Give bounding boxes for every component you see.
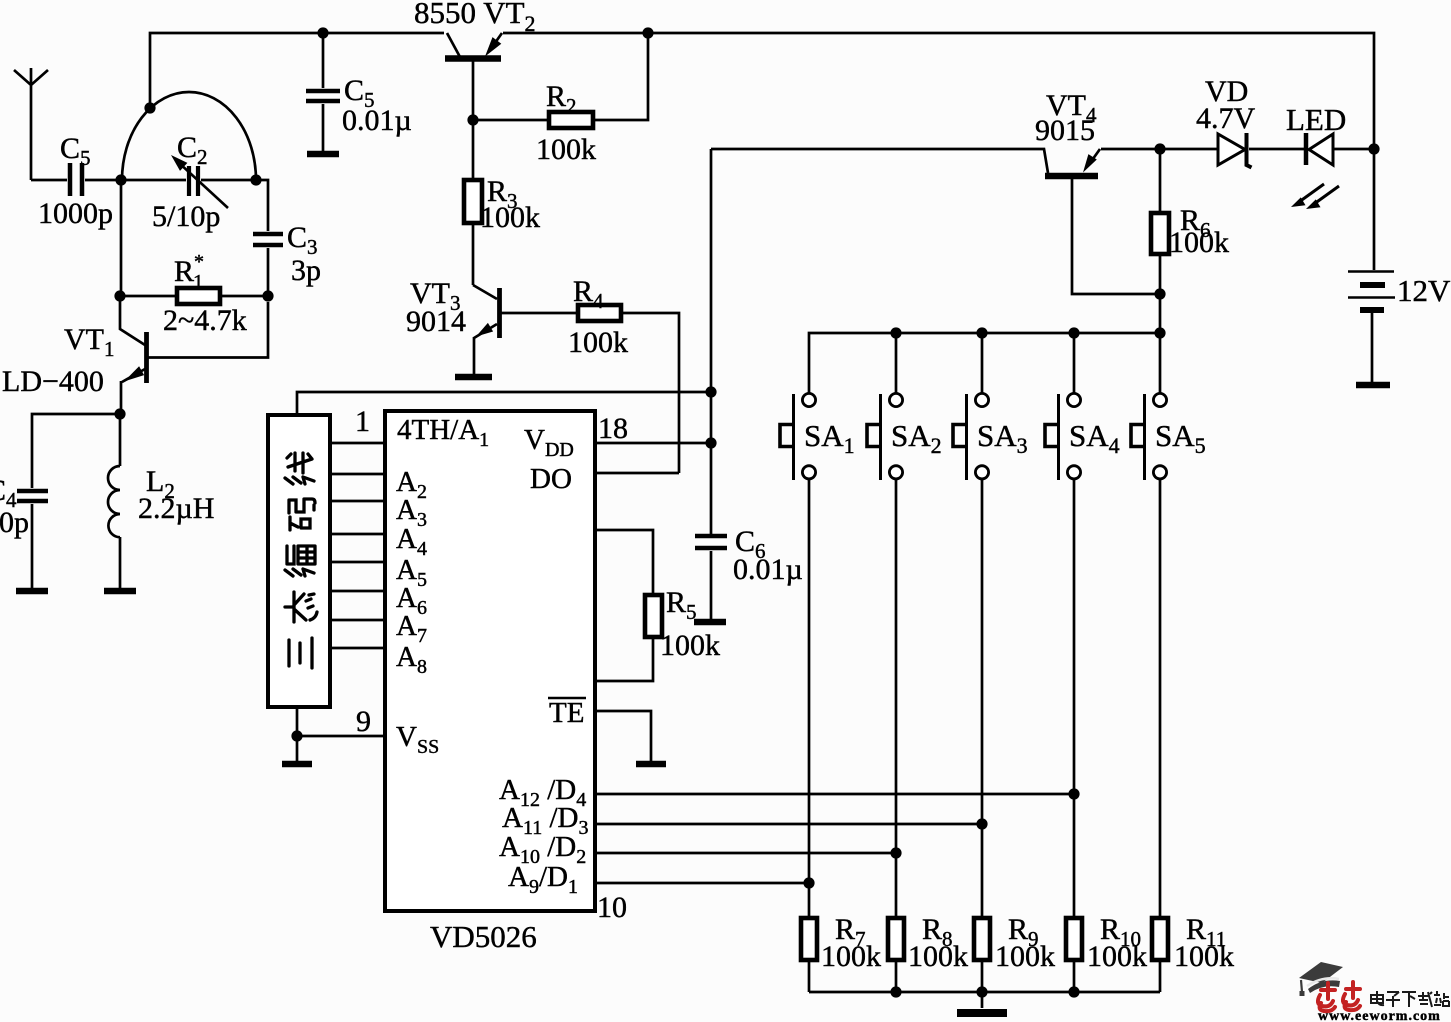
pin 1 wire <box>330 442 385 445</box>
svg-text:VD5026: VD5026 <box>430 919 537 954</box>
node bus SA5 <box>1154 327 1165 338</box>
watermark text dianzi xiazaizhan <box>1371 991 1449 1007</box>
pin A4 wire <box>330 533 385 536</box>
resistor R6 100k <box>1151 149 1229 294</box>
node rail R10 <box>1068 986 1079 997</box>
wire DO pin <box>595 472 679 475</box>
capacitor C3 3p <box>253 221 321 296</box>
node SA3 D3 <box>976 818 987 829</box>
resistor R8 100k <box>888 913 968 992</box>
capacitor C6 0.01u <box>695 525 803 619</box>
wire Vss pin <box>297 735 385 738</box>
wire SA3 down <box>981 479 984 918</box>
capacitor C5 0.01u <box>306 33 412 151</box>
wire emitter to C4 <box>32 414 120 488</box>
node C5b top <box>317 27 328 38</box>
wire rail right segment <box>503 33 1374 270</box>
svg-text:A9/D1: A9/D1 <box>508 861 578 898</box>
pin A2 wire <box>330 473 385 476</box>
svg-text:100k: 100k <box>995 940 1055 973</box>
wire VD to LED <box>1249 148 1305 151</box>
wire SA1 down <box>808 479 811 918</box>
pin A3 wire <box>330 500 385 503</box>
node rail R2 <box>642 27 653 38</box>
resistor R10 100k <box>1066 913 1147 992</box>
pin A7 wire <box>330 619 385 622</box>
wire A12/D4 <box>595 793 1074 796</box>
transistor VT1 LD-400 <box>2 296 268 414</box>
capacitor C5 1000p <box>38 132 113 230</box>
IC U1 VD5026 box <box>385 411 595 911</box>
node rail R8 <box>890 986 901 997</box>
node SA4 D4 <box>1068 788 1079 799</box>
wire antenna to C5 <box>31 179 67 182</box>
wire button bus <box>809 294 1160 394</box>
capacitor C2 5/10p variable <box>122 131 256 233</box>
resistor R7 100k <box>801 913 881 992</box>
node R6 top <box>1154 143 1165 154</box>
svg-text:C5: C5 <box>60 132 91 170</box>
pin A5 wire <box>330 561 385 564</box>
svg-text:2.2µH: 2.2µH <box>138 492 214 525</box>
LED emission arrows <box>1291 184 1339 209</box>
svg-text:C2: C2 <box>177 131 208 169</box>
svg-text:1000p: 1000p <box>38 197 113 230</box>
wire VDD pin 18 <box>595 442 711 445</box>
wire SA4 down <box>1073 479 1076 918</box>
svg-text:9: 9 <box>356 705 371 738</box>
svg-text:SA1: SA1 <box>804 418 855 458</box>
node arc tap <box>144 102 155 113</box>
svg-text:SA3: SA3 <box>977 418 1028 458</box>
wire A9/D1 <box>595 882 809 885</box>
node bus SA2 <box>890 327 901 338</box>
svg-text:100k: 100k <box>660 629 720 662</box>
transistor VT3 9014 <box>406 277 578 374</box>
resistor R4 100k <box>568 275 679 473</box>
node SA2 D2 <box>890 847 901 858</box>
wire encoder bottom to Vss <box>296 707 299 736</box>
node rail R9 <box>976 986 987 997</box>
svg-text:www.eeworm.com: www.eeworm.com <box>1318 1009 1441 1022</box>
ground TE <box>636 761 666 768</box>
switch SA3 <box>953 393 1028 480</box>
svg-text:TE: TE <box>549 697 584 729</box>
wire encoder top to VDD <box>297 392 711 415</box>
svg-text:4.7V: 4.7V <box>1196 102 1256 135</box>
antenna <box>14 68 48 180</box>
zener VD 4.7V <box>1196 75 1256 168</box>
node Vss <box>291 730 302 741</box>
svg-text:100k: 100k <box>536 133 596 166</box>
svg-text:100k: 100k <box>1087 940 1147 973</box>
node R1 left <box>114 290 125 301</box>
node A <box>115 174 126 185</box>
ground bottom rail <box>957 992 1007 1013</box>
ground battery <box>1356 382 1390 389</box>
LED <box>1286 102 1374 165</box>
svg-text:LED: LED <box>1286 102 1346 137</box>
svg-text:12V: 12V <box>1397 273 1451 308</box>
ground VT3 <box>455 374 492 381</box>
wire node A down <box>120 180 123 296</box>
watermark chongchong red <box>1318 982 1360 1011</box>
svg-text:R4: R4 <box>573 275 604 313</box>
transistor VT2 8550 <box>414 0 536 120</box>
node VT1 emitter <box>114 408 125 419</box>
node VT4 base / R6 bottom <box>1154 288 1165 299</box>
svg-text:5/10p: 5/10p <box>152 200 220 233</box>
svg-text:18: 18 <box>598 412 628 445</box>
battery 12V <box>1348 272 1451 383</box>
node bus SA3 <box>976 327 987 338</box>
switch SA4 <box>1045 393 1120 480</box>
wire SA2 down <box>895 479 898 918</box>
wire rail left segment <box>150 33 444 108</box>
switch SA5 <box>1131 393 1206 480</box>
resistor R9 100k <box>974 913 1055 992</box>
switch SA2 <box>867 393 942 480</box>
svg-text:8550 VT2: 8550 VT2 <box>414 0 536 36</box>
svg-text:SA4: SA4 <box>1069 418 1120 458</box>
ground Vss <box>282 736 312 764</box>
svg-text:SA5: SA5 <box>1155 418 1206 458</box>
svg-text:10: 10 <box>597 891 627 924</box>
label 三态编码线 (drawn strokes) <box>285 453 317 668</box>
svg-text:100k: 100k <box>1169 226 1229 259</box>
resistor R2 100k <box>473 33 648 166</box>
wire SA5 down <box>1159 479 1162 918</box>
resistor R1 2~4.7k <box>120 251 268 337</box>
node LED rail <box>1368 143 1379 154</box>
resistor R3 100k <box>464 120 540 285</box>
node VDD pin <box>705 437 716 448</box>
svg-text:DO: DO <box>530 463 572 495</box>
svg-text:0.01µ: 0.01µ <box>733 553 803 586</box>
node VDD-encoder <box>705 386 716 397</box>
transistor VT4 9015 <box>711 89 1160 294</box>
node SA1 D1 <box>803 877 814 888</box>
wire bottom rail <box>809 991 1160 994</box>
pin A8 wire <box>330 647 385 650</box>
node VT2 base <box>467 114 478 125</box>
svg-text:9014: 9014 <box>406 305 466 338</box>
wire bus stubs <box>896 333 1074 394</box>
ground C4 <box>16 588 48 595</box>
svg-text:1: 1 <box>355 405 370 438</box>
node R1 right <box>262 290 273 301</box>
node bus SA4 <box>1068 327 1079 338</box>
switch SA1 <box>780 393 855 480</box>
svg-text:2~4.7k: 2~4.7k <box>163 304 247 337</box>
wire C5 to node A <box>85 179 122 182</box>
node B <box>250 174 261 185</box>
svg-text:9015: 9015 <box>1035 114 1095 147</box>
svg-text:R5: R5 <box>666 586 697 624</box>
svg-text:10p: 10p <box>0 506 29 539</box>
watermark logo cap <box>1299 962 1343 996</box>
svg-text:SA2: SA2 <box>891 418 942 458</box>
svg-text:R*1: R*1 <box>174 251 204 294</box>
wire node B to C3 <box>256 180 268 231</box>
resistor R5 100k <box>595 530 720 681</box>
svg-text:VT1: VT1 <box>64 323 115 361</box>
encoder box tri-state lines <box>268 415 330 707</box>
wire A10/D2 <box>595 852 896 855</box>
wire VT4 emitter <box>1101 148 1218 151</box>
svg-text:0.01µ: 0.01µ <box>342 104 412 137</box>
svg-text:LD−400: LD−400 <box>2 365 104 398</box>
ground C6 <box>694 619 726 626</box>
svg-text:100k: 100k <box>821 940 881 973</box>
svg-text:100k: 100k <box>908 940 968 973</box>
svg-text:100k: 100k <box>568 326 628 359</box>
ground C5b <box>307 151 339 158</box>
resistor R11 100k <box>1152 913 1234 992</box>
svg-text:100k: 100k <box>480 201 540 234</box>
svg-text:100k: 100k <box>1174 940 1234 973</box>
capacitor C4 <box>0 474 48 588</box>
svg-text:R2: R2 <box>546 80 577 118</box>
wire VDD vertical <box>710 149 713 536</box>
pin A6 wire <box>330 590 385 593</box>
ground L2 <box>104 588 136 595</box>
wire TE to ground <box>595 711 651 761</box>
wire A11/D3 <box>595 823 982 826</box>
svg-text:3p: 3p <box>291 254 321 287</box>
pin label TE <box>548 697 586 729</box>
svg-text:4TH/A1: 4TH/A1 <box>397 414 489 451</box>
coil L1 arc <box>122 92 256 180</box>
inductor L2 2.2uH <box>108 414 214 588</box>
